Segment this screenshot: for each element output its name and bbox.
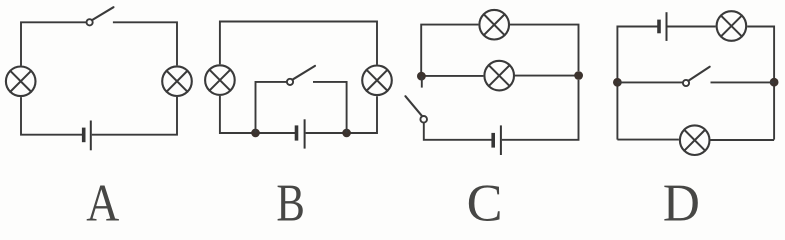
junction dot (circuit B, node left of battery) xyxy=(251,129,260,138)
lamp L5 (circuit C, top branch) xyxy=(479,10,509,40)
battery G4 (circuit D, top): short thick plate and long thin plate xyxy=(659,12,667,41)
lamp L6 (circuit C, middle branch) xyxy=(484,61,514,91)
junction dot (circuit B, node right of battery) xyxy=(342,129,351,138)
svg-text:B: B xyxy=(276,175,305,222)
switch S1 (open knife switch, circuit A top) xyxy=(87,7,114,25)
junction dot (circuit D, right node) xyxy=(770,78,779,87)
wire: switch S3 down to battery G3 (circuit C bottom-left) xyxy=(424,123,493,140)
wire: circuit C middle branch right xyxy=(515,75,579,77)
wire: lamp L8 to circuit D bottom-right corner xyxy=(711,139,775,141)
switch S4 (open knife switch, circuit D middle branch) xyxy=(683,67,710,86)
wire: switch S2 to right riser of shorting branch xyxy=(313,82,347,133)
lamp L2 (circuit A, right) xyxy=(162,66,192,96)
wire: circuit A top-left (lamp L1 up to switch S1) xyxy=(21,22,86,65)
wire: lamp L7 to circuit D right rail xyxy=(747,27,774,140)
battery G2 (circuit B): short thick plate and long thin plate xyxy=(297,119,305,148)
svg-text:A: A xyxy=(86,175,119,222)
wire: switch S1 to lamp L2 (circuit A top-right) xyxy=(113,22,177,65)
battery G1 (circuit A): short thick plate and long thin plate xyxy=(84,121,91,151)
junction dot (circuit C, left node) xyxy=(417,72,426,81)
wire: circuit B shorting branch, left riser to switch S2 xyxy=(256,82,287,133)
wire: circuit C top branch right xyxy=(510,25,579,71)
switch S2 (open knife switch, circuit B shorting branch) xyxy=(287,66,315,85)
wire: circuit D middle branch, left node to switch S4 xyxy=(617,81,682,83)
lamp L4 (circuit B, right) xyxy=(362,66,392,96)
lamp L3 (circuit B, left) xyxy=(205,65,235,95)
wire: circuit C middle branch left xyxy=(421,75,483,77)
wire: lamp L1 down to battery G1 (circuit A bottom-left) xyxy=(21,97,83,135)
wire: circuit B top rail (lamp L3 over to lamp L4) xyxy=(220,22,377,65)
wire: battery G4 to lamp L7 (circuit D top) xyxy=(668,26,716,28)
wire: battery G3 to circuit C right rail xyxy=(502,80,579,140)
junction dot (circuit C, right node) xyxy=(574,71,583,80)
wire: circuit D bottom-left lead to lamp L8 xyxy=(617,139,679,141)
lamp L7 (circuit D, top) xyxy=(717,11,747,41)
svg-text:C: C xyxy=(467,175,503,222)
wire: switch S4 to circuit D right node xyxy=(711,81,775,83)
wire: battery G1 to lamp L2 (circuit A bottom-right) xyxy=(92,97,177,135)
wire: circuit D left rail and top lead to battery G4 xyxy=(617,27,658,140)
battery G3 (circuit C): short thick plate and long thin plate xyxy=(493,125,501,155)
switch S3 (open knife switch, circuit C left side, blade swung up-left) xyxy=(405,96,427,122)
junction dot (circuit D, left node) xyxy=(613,78,622,87)
wire: circuit C top branch left (left rail from node up) xyxy=(421,25,478,76)
wire: circuit C left node down to switch S3 fixed contact xyxy=(421,76,423,88)
wire: battery G2 to lamp L4 (circuit B bottom-right) xyxy=(306,96,377,133)
lamp L1 (circuit A, left) xyxy=(6,67,36,97)
wire: lamp L3 down to battery G2 (circuit B bottom-left) xyxy=(220,96,296,133)
svg-text:D: D xyxy=(663,175,700,222)
lamp L8 (circuit D, bottom) xyxy=(680,125,710,155)
